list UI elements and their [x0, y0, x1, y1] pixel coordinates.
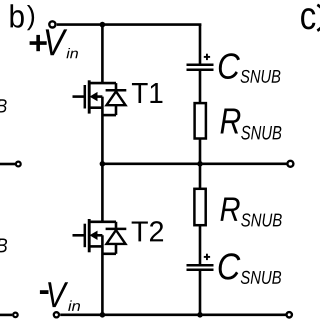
label Csnub upper C	[219, 53, 240, 79]
node mid junction right	[197, 161, 203, 167]
node bottom junction right	[197, 312, 203, 318]
wire mid node to lower resistor	[199, 164, 202, 189]
drain stub T2	[89, 221, 116, 224]
capacitor Csnub upper	[187, 65, 214, 70]
label -Vin minus sign	[40, 290, 49, 294]
source stub T1	[89, 106, 102, 109]
gate bar T1	[84, 85, 87, 109]
label +Vin V	[46, 29, 68, 55]
transistor T2	[73, 219, 127, 254]
resistor Rsnub lower	[194, 189, 205, 225]
source stub T2	[89, 245, 102, 248]
capacitor Csnub lower	[187, 265, 214, 270]
gate bar T2	[84, 224, 87, 248]
label -Vin subscript in	[68, 300, 80, 311]
terminal bottom output circle	[287, 312, 292, 317]
panel label c closing paren cut at image edge	[317, 5, 320, 31]
wire T2 drain from mid node	[101, 164, 104, 222]
wire mid rail	[102, 163, 286, 166]
label Rsnub upper R	[221, 108, 241, 133]
channel bar T2	[88, 219, 91, 252]
wire stub mid left from panel a	[0, 163, 15, 166]
gate lead T1	[73, 95, 85, 98]
node bottom junction left	[100, 312, 106, 318]
body diode T1 triangle	[107, 91, 126, 105]
node top junction	[100, 22, 106, 28]
panel label c	[301, 8, 315, 29]
label +Vin plus sign	[30, 35, 47, 51]
body diode T2 cathode lead	[115, 222, 118, 228]
node mid junction left	[100, 161, 106, 167]
gate lead T2	[73, 234, 85, 237]
panel label b closing paren	[27, 5, 34, 30]
label -Vin V	[48, 282, 68, 307]
wire bottom rail	[60, 313, 286, 316]
label Csnub upper subscript SNUB	[241, 70, 281, 83]
wire T1 drain	[101, 25, 104, 84]
panel label b	[10, 4, 23, 28]
label Rsnub upper subscript SNUB	[241, 126, 281, 140]
body diode T1 anode lead	[115, 105, 118, 115]
body diode T1 cathode lead	[115, 83, 118, 89]
transistor T1	[73, 80, 127, 115]
terminal +Vin input circle	[49, 21, 55, 27]
body stub T2 with arrow	[95, 234, 102, 237]
terminal mid left circle	[16, 162, 21, 167]
terminal bottom left circle	[13, 313, 18, 318]
text fragment B lower cut at left edge	[0, 239, 7, 253]
terminal -Vin input circle	[54, 312, 59, 317]
drain stub T1	[89, 82, 116, 85]
wire T2 source to bottom rail	[101, 235, 104, 314]
label T2	[132, 221, 163, 241]
wire upper cap to resistor	[199, 71, 202, 103]
text fragment B upper cut at left edge	[0, 99, 7, 112]
label +Vin subscript in	[66, 48, 77, 58]
wire lower resistor to cap	[199, 225, 202, 264]
label Rsnub lower R	[220, 197, 239, 220]
terminal mid output circle	[287, 161, 293, 167]
resistor Rsnub upper	[195, 103, 206, 138]
wire stub bottom left from panel a	[0, 314, 12, 317]
label Csnub lower C	[219, 253, 241, 279]
body diode T2 cathode bar	[106, 228, 127, 231]
polarity plus of upper Csnub	[204, 54, 210, 60]
label Rsnub lower subscript SNUB	[241, 213, 282, 226]
wire upper resistor to mid node	[199, 139, 202, 164]
wire top rail corner down to upper snubber	[199, 25, 202, 64]
label T1	[132, 83, 163, 103]
label Csnub lower subscript SNUB	[241, 271, 281, 284]
wire T1 source to mid node	[101, 97, 104, 164]
body diode T2 anode lead	[115, 244, 118, 254]
body stub T1 with arrow	[95, 95, 102, 98]
body diode T2 triangle	[107, 230, 126, 244]
channel bar T1	[88, 80, 91, 113]
wire top rail	[57, 23, 202, 26]
body diode T1 cathode bar	[106, 89, 127, 92]
polarity plus of lower Csnub	[204, 254, 210, 260]
wire lower cap to bottom rail	[199, 271, 202, 315]
